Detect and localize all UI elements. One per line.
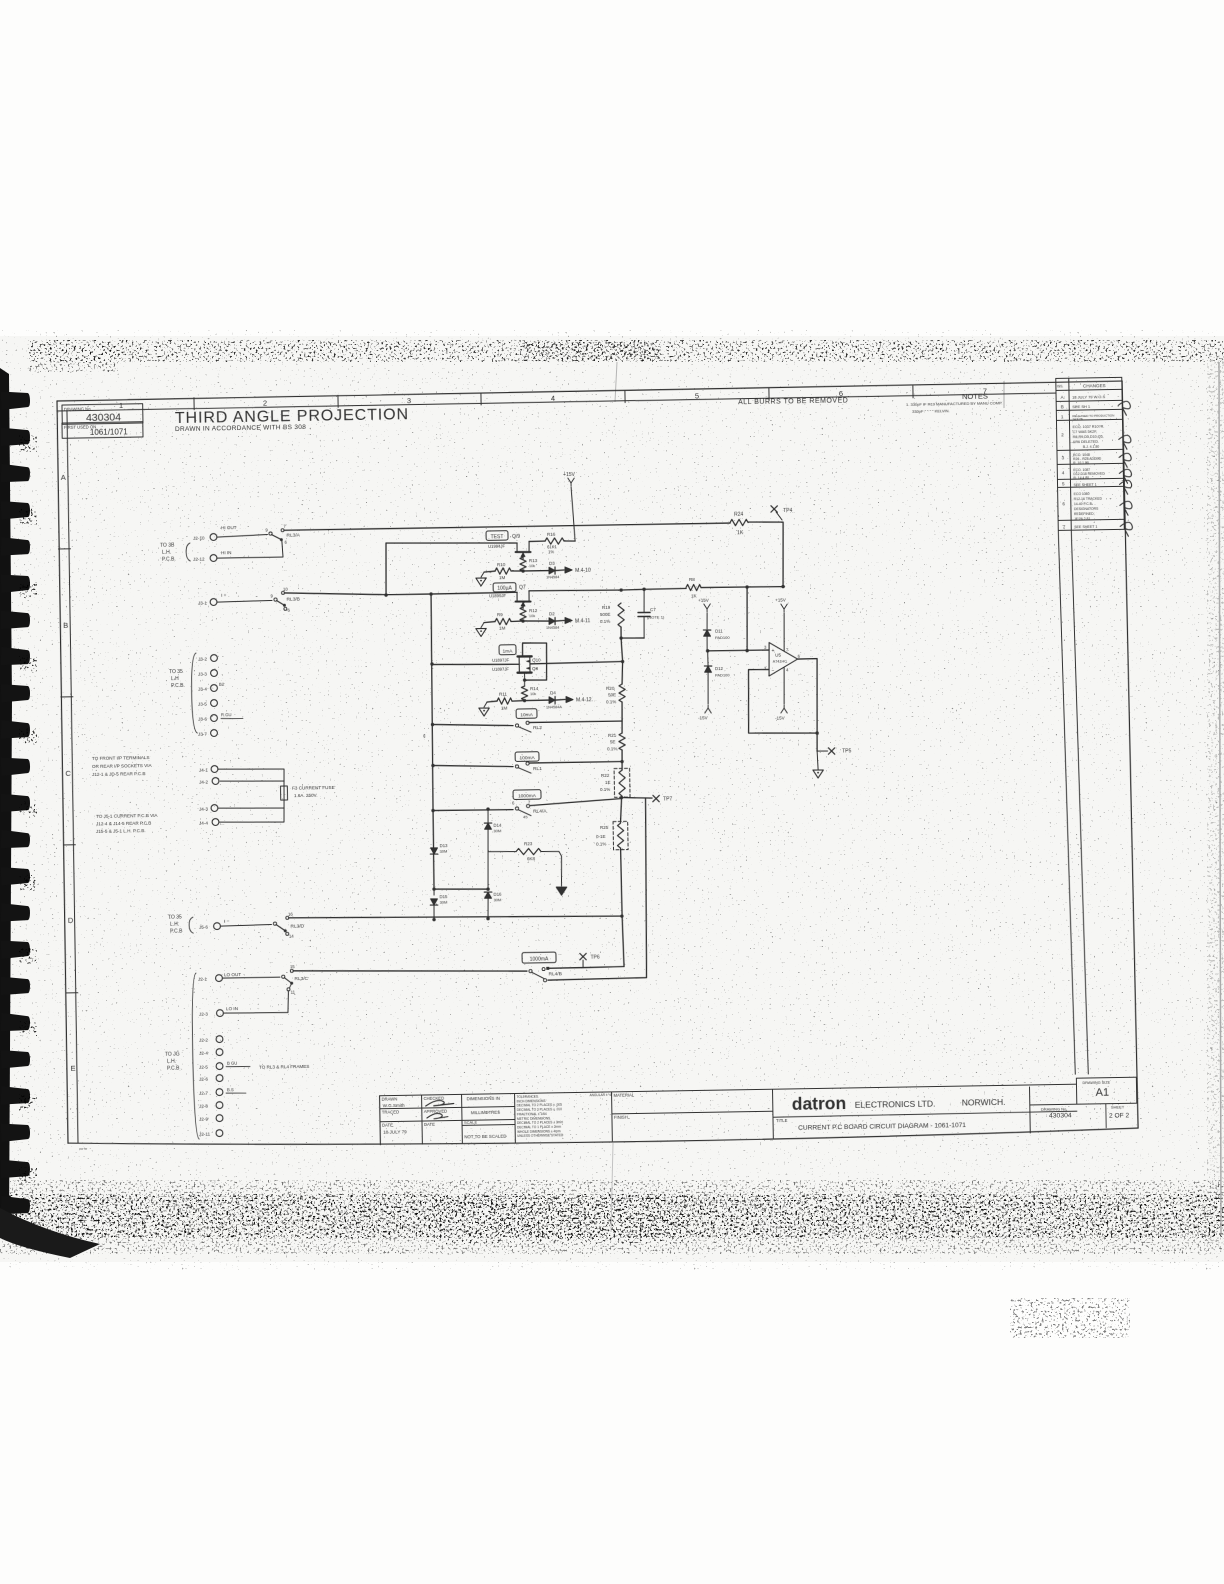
svg-text:R12-16 TRACKED: R12-16 TRACKED [1074, 497, 1103, 501]
svg-text:5E: 5E [610, 739, 616, 744]
svg-text:UNLESS OTHERWISE STATED: UNLESS OTHERWISE STATED [517, 1133, 564, 1138]
svg-text:TP4: TP4 [783, 508, 792, 514]
resistor R23 [488, 850, 516, 853]
svg-text:R22: R22 [601, 773, 610, 778]
svg-text:TEST: TEST [491, 534, 504, 540]
svg-text:14-40 P.C.B.: 14-40 P.C.B. [1074, 502, 1093, 506]
svg-text:ECO 1080: ECO 1080 [1074, 492, 1090, 496]
svg-text:J4-2: J4-2 [199, 779, 208, 784]
svg-text:ISS.: ISS. [1057, 384, 1064, 388]
svg-text:B: B [1061, 404, 1064, 409]
svg-text:R11: R11 [499, 691, 508, 696]
svg-text:TP6: TP6 [590, 954, 599, 960]
scan noise right edge [1207, 355, 1224, 1245]
svg-text:JE 26.2.81: JE 26.2.81 [1074, 517, 1090, 521]
svg-text:U1897JF: U1897JF [492, 667, 510, 672]
svg-text:1061/1071: 1061/1071 [90, 427, 129, 437]
svg-text:R8: R8 [689, 577, 695, 582]
svg-text:D2: D2 [549, 611, 555, 616]
relay RL4/B [529, 970, 532, 973]
svg-text:DATE: DATE [382, 1123, 393, 1128]
resistor R22 with dashed outline [614, 768, 630, 797]
svg-text:NOT TO BE SCALED: NOT TO BE SCALED [464, 1134, 506, 1140]
svg-text:MATERIAL: MATERIAL [614, 1093, 635, 1098]
svg-text:16: 16 [288, 911, 293, 916]
svg-text:18 JULY 79: 18 JULY 79 [383, 1129, 407, 1134]
svg-text:1N4584A: 1N4584A [546, 705, 562, 709]
svg-text:A: A [61, 473, 66, 482]
svg-text:+15V: +15V [775, 597, 786, 602]
resistor R11 [523, 699, 526, 702]
diode D14 [485, 823, 492, 829]
svg-text:1M: 1M [499, 625, 506, 630]
wire feedback loop [748, 668, 818, 734]
svg-text:L.H.: L.H. [162, 550, 171, 556]
svg-text:D: D [68, 916, 74, 925]
off-page arrow M.4-12 [566, 696, 573, 702]
svg-text:10mA: 10mA [520, 712, 533, 718]
svg-text:TITLE: TITLE [776, 1118, 788, 1123]
resistor R9 [521, 619, 524, 622]
wire HI OUT top run [284, 523, 730, 531]
svg-text:U1994JF: U1994JF [488, 544, 506, 549]
top zone ticks [193, 398, 195, 410]
svg-text:J2-5: J2-5 [199, 1064, 208, 1069]
svg-text:R9: R9 [497, 612, 503, 617]
svg-text:B: B [63, 621, 68, 630]
svg-text:+15V: +15V [698, 598, 709, 603]
testpoint TP7 [653, 795, 659, 802]
svg-text:J2-10: J2-10 [193, 535, 205, 540]
svg-text:L.H.: L.H. [167, 1058, 176, 1064]
svg-text:datron: datron [792, 1093, 847, 1114]
resistor R8 [686, 584, 701, 591]
svg-text:R. 14.4.80: R. 14.4.80 [1073, 476, 1089, 480]
svg-text:1E: 1E [605, 780, 611, 785]
svg-text:RL1: RL1 [533, 766, 542, 772]
svg-text:FINISH: FINISH [614, 1115, 628, 1120]
svg-text:−: − [772, 668, 775, 674]
relay RL3/D arm [276, 924, 284, 930]
svg-text:1000mA: 1000mA [530, 956, 549, 962]
svg-text:SCALE: SCALE [464, 1120, 478, 1125]
svg-text:J3-7: J3-7 [198, 731, 207, 736]
svg-text:(NOTE 1): (NOTE 1) [647, 614, 665, 619]
svg-text:14: 14 [289, 934, 294, 939]
svg-text:10k: 10k [529, 564, 535, 568]
svg-text:R16: R16 [547, 532, 556, 537]
svg-text:J2-6: J2-6 [199, 1076, 208, 1081]
svg-text:TO 35: TO 35 [168, 914, 182, 920]
svg-text:CHANGES: CHANGES [1083, 383, 1106, 388]
svg-text:M.4-11: M.4-11 [575, 618, 591, 624]
svg-text:TP7: TP7 [663, 796, 672, 802]
svg-text:2: 2 [263, 399, 267, 408]
wire R24 to TP4 corner [748, 521, 784, 586]
drawing size box [1076, 1077, 1136, 1104]
svg-text:SHEET: SHEET [1111, 1104, 1125, 1109]
diode D2 [523, 620, 549, 623]
svg-text:¢: ¢ [423, 734, 426, 740]
border inner left line [66, 411, 79, 1143]
svg-text:J2-2: J2-2 [199, 1037, 208, 1042]
svg-text:+15V: +15V [563, 472, 576, 478]
svg-text:ANGULAR ± ½°: ANGULAR ± ½° [590, 1093, 614, 1097]
svg-text:RL3/B: RL3/B [286, 596, 299, 602]
power -15V for D12 [707, 705, 709, 708]
svg-text:J12-4 & J14-5 REAR P.C.B: J12-4 & J14-5 REAR P.C.B [96, 821, 151, 827]
svg-text:430304: 430304 [1049, 1112, 1072, 1119]
svg-text:10k: 10k [529, 614, 535, 618]
wire bus drop to op-amp node [746, 587, 748, 651]
svg-text:D13: D13 [439, 843, 448, 848]
svg-text:DATE: DATE [424, 1122, 435, 1127]
svg-text:100µA: 100µA [497, 585, 512, 591]
svg-text:1mA: 1mA [503, 648, 514, 654]
svg-text:D12: D12 [715, 666, 724, 671]
wire R22 bottom junction to TP7 [620, 796, 623, 799]
svg-text:J3-5: J3-5 [198, 701, 207, 706]
svg-text:LO OUT: LO OUT [224, 972, 241, 977]
wire 1000mA bus with relay RL4/A [433, 809, 513, 811]
svg-text:DRAWN: DRAWN [382, 1096, 398, 1101]
svg-text:U1897JF: U1897JF [492, 658, 510, 663]
svg-text:J2-3: J2-3 [199, 1011, 208, 1016]
binding edge black strip [0, 368, 12, 1235]
svg-text:J4-1: J4-1 [199, 767, 208, 772]
svg-text:0.1%: 0.1% [606, 699, 616, 704]
op-amp U5 A741HC [769, 642, 798, 676]
svg-text:pw fw: pw fw [79, 1147, 88, 1151]
svg-text:R19: R19 [602, 605, 611, 610]
svg-text:3: 3 [407, 396, 411, 405]
svg-text:J5-6: J5-6 [199, 924, 208, 929]
label 100mA [515, 752, 539, 762]
svg-text:LO IN: LO IN [226, 1006, 238, 1011]
svg-text:R20: R20 [606, 686, 615, 691]
svg-text:ECO. 1037 R10?R.: ECO. 1037 R10?R. [1073, 425, 1105, 430]
border frame outer [57, 381, 1122, 401]
svg-text:D15: D15 [439, 894, 448, 899]
scan noise band top [28, 340, 1224, 362]
diode D16 [485, 892, 492, 898]
ground below TP5 [813, 770, 824, 778]
border inner top line [57, 393, 1056, 411]
resistor R21 [622, 702, 623, 733]
ground below R23 [556, 887, 567, 895]
wire D11/D12 node to op-amp input [706, 649, 709, 652]
svg-text:1N4584: 1N4584 [546, 575, 559, 579]
diode D15 [433, 889, 435, 895]
svg-text:1.6A. 250V.: 1.6A. 250V. [294, 793, 318, 798]
svg-text:PAD100: PAD100 [715, 635, 730, 640]
svg-text:RL3/D: RL3/D [290, 923, 304, 929]
svg-text:Q/9: Q/9 [512, 534, 520, 540]
relay RL3/B arm [277, 600, 284, 605]
svg-text:J2-12: J2-12 [193, 556, 205, 561]
svg-text:R.GU: R.GU [221, 712, 232, 717]
svg-text:10k: 10k [530, 692, 536, 696]
svg-text:1M: 1M [501, 705, 508, 710]
label 1000mA near RL4/B [522, 952, 556, 963]
svg-text:-15V: -15V [775, 715, 785, 720]
svg-text:330pF " " ": 330pF " " " " KELVIN. [912, 408, 950, 414]
svg-text:J3-4: J3-4 [198, 686, 207, 691]
relay RL3/C arm [284, 978, 291, 983]
svg-text:W.G.Smith: W.G.Smith [383, 1103, 405, 1108]
wire 1mA bus right [530, 662, 623, 664]
svg-text:J2-7: J2-7 [199, 1090, 208, 1095]
drawing-number box [62, 404, 143, 425]
svg-text:R10: R10 [497, 562, 506, 567]
svg-text:Q8: Q8 [532, 666, 539, 671]
svg-text:NOTES: NOTES [962, 392, 988, 401]
title block outline [380, 1084, 1077, 1096]
svg-text:1000mA: 1000mA [518, 793, 537, 799]
svg-text:J15-5 & J5-1 L.H. P.C.B.: J15-5 & J5-1 L.H. P.C.B. [96, 828, 146, 834]
svg-text:D11: D11 [715, 628, 723, 633]
diode D13 [431, 848, 438, 854]
svg-text:P.C.B.: P.C.B. [162, 557, 176, 563]
svg-text:DRAWING No.: DRAWING No. [1041, 1106, 1068, 1111]
wire 100mA bus with relay RL1 [433, 764, 513, 768]
wire 10mA bus with relay RL2 [433, 723, 514, 727]
svg-text:1M: 1M [499, 575, 506, 580]
svg-text:MILLIMETRES: MILLIMETRES [471, 1110, 500, 1115]
label 10mA [516, 709, 537, 719]
ground below R9 [476, 628, 487, 636]
svg-text:0.1%: 0.1% [596, 841, 606, 846]
svg-text:0.1%: 0.1% [600, 787, 610, 792]
svg-text:Q7: Q7 [519, 585, 526, 591]
svg-text:15: 15 [290, 964, 295, 969]
svg-text:D3: D3 [549, 561, 555, 566]
wire left rail [429, 594, 434, 810]
svg-text:J4-4: J4-4 [199, 820, 208, 825]
diode D4 [525, 699, 549, 702]
border frame right edge [1122, 381, 1138, 1128]
resistor R25 with dashed outline [620, 798, 622, 823]
svg-text:B.S: B.S [227, 1087, 234, 1092]
left zone ticks [58, 548, 70, 550]
testpoint TP4 [771, 506, 777, 513]
svg-text:0-1E: 0-1E [596, 834, 606, 839]
paper tone of scanned area [0, 336, 1224, 1262]
svg-text:NORWICH.: NORWICH. [962, 1097, 1006, 1108]
svg-text:1K: 1K [737, 530, 744, 536]
svg-text:10: 10 [283, 586, 288, 591]
svg-text:R. 10.1.80: R. 10.1.80 [1073, 461, 1089, 465]
title block row lines [380, 1107, 515, 1109]
resistor R19 [618, 603, 625, 627]
svg-text:J4-3: J4-3 [199, 806, 208, 811]
svg-text:J2-4: J2-4 [199, 1050, 208, 1055]
svg-text:RL4/B: RL4/B [549, 971, 562, 977]
svg-text:TP5: TP5 [842, 748, 851, 754]
svg-text:L.H.: L.H. [170, 921, 179, 927]
svg-text:DESIGNATORS: DESIGNATORS [1074, 507, 1099, 511]
svg-text:P.C.B: P.C.B [170, 928, 183, 934]
resistor R10 [521, 569, 524, 572]
capacitor C7 [643, 589, 646, 612]
svg-text:A741HC: A741HC [773, 659, 788, 663]
svg-text:TRACED: TRACED [382, 1109, 399, 1114]
resistor R14 [523, 678, 526, 681]
resistor R12 [522, 601, 524, 607]
svg-text:B2: B2 [219, 682, 225, 687]
svg-text:M.4-10: M.4-10 [575, 568, 591, 574]
svg-text:C7: C7 [650, 607, 656, 612]
svg-text:P.C.B.: P.C.B. [171, 683, 185, 689]
wire protection diode rail right [487, 809, 489, 823]
svg-text:M.4-12.: M.4-12. [576, 697, 593, 703]
svg-text:SEE SHEET 1: SEE SHEET 1 [1074, 483, 1097, 487]
power -15V for op-amp [784, 668, 785, 705]
main drawing sheet (tilted) [56, 377, 1143, 1151]
svg-text:TO JG: TO JG [165, 1051, 180, 1057]
resistor R20 [619, 684, 626, 702]
svg-text:J3-2: J3-2 [198, 656, 207, 661]
svg-text:30M: 30M [493, 828, 501, 833]
svg-text:C: C [65, 769, 71, 778]
svg-text:Q10: Q10 [532, 657, 541, 662]
svg-text:D16: D16 [494, 892, 503, 897]
binding ring shadows [19, 436, 37, 1184]
relay RL3/A arm [272, 534, 281, 539]
svg-text:J2-1: J2-1 [198, 976, 207, 981]
testpoint TP6 [580, 953, 586, 960]
ground below R10 [476, 578, 487, 586]
approved signature [427, 1113, 448, 1119]
svg-text:A1: A1 [1096, 1087, 1110, 1099]
svg-text:RL3/A: RL3/A [287, 532, 301, 538]
wire protection diode rail left [433, 811, 435, 890]
svg-text:2 OF 2: 2 OF 2 [1109, 1112, 1130, 1119]
svg-text:F3 CURRENT FUSE: F3 CURRENT FUSE [292, 785, 335, 791]
svg-text:E: E [70, 1064, 75, 1073]
label 100uA [493, 583, 516, 592]
svg-text:J2-8: J2-8 [199, 1103, 208, 1108]
label TEST [486, 531, 508, 541]
svg-text:R24: R24 [734, 512, 743, 518]
resistor R13 [522, 552, 524, 557]
svg-text:6K8: 6K8 [527, 856, 536, 861]
ground below R11 [479, 708, 490, 716]
svg-text:R25: R25 [600, 825, 609, 830]
svg-text:D4: D4 [550, 690, 556, 695]
svg-text:0.1%: 0.1% [600, 619, 610, 624]
svg-text:D14: D14 [493, 823, 502, 828]
svg-text:U5: U5 [775, 652, 781, 657]
svg-text:OR REAR I/P SOCKETS VIA: OR REAR I/P SOCKETS VIA [92, 763, 153, 769]
svg-text:SEE SHEET 1: SEE SHEET 1 [1074, 525, 1097, 529]
svg-text:30M: 30M [493, 897, 501, 902]
svg-text:B.J. 4.1.80: B.J. 4.1.80 [1083, 445, 1099, 449]
svg-text:14.9.79: 14.9.79 [1072, 417, 1082, 421]
wire R19/C7 bottom join [620, 627, 622, 638]
resistor R24 [730, 519, 748, 526]
off-page arrow M.4-10 [565, 567, 572, 573]
svg-text:TO 3B: TO 3B [160, 543, 175, 549]
wire TEST source drop to I+ bus [385, 543, 387, 595]
svg-text:J3-3: J3-3 [198, 671, 207, 676]
svg-text:TO 35: TO 35 [169, 669, 183, 675]
svg-text:4: 4 [551, 394, 555, 403]
fuse F3 [218, 768, 284, 787]
svg-text:P.C.B .: P.C.B . [167, 1065, 182, 1071]
diode D12 [707, 651, 709, 666]
paper crease marks [615, 362, 617, 402]
svg-text:30M: 30M [440, 899, 448, 904]
svg-text:I −: I − [224, 919, 230, 925]
svg-text:1%: 1% [548, 549, 554, 554]
svg-text:R13: R13 [529, 558, 538, 563]
svg-text:TO J5-1 CURRENT P.C.B VIA: TO J5-1 CURRENT P.C.B VIA [96, 813, 159, 819]
svg-text:TO RL3 & RL4 FRAMES: TO RL3 & RL4 FRAMES [259, 1064, 310, 1070]
change approval signatures [1118, 401, 1130, 415]
svg-text:J2-9: J2-9 [199, 1116, 208, 1121]
svg-text:5: 5 [695, 391, 699, 400]
svg-text:I +: I + [221, 593, 227, 599]
diode D11 [704, 630, 711, 636]
svg-text:TO FRONT I/P TERMINALS: TO FRONT I/P TERMINALS [92, 755, 150, 761]
svg-text:R21: R21 [608, 733, 617, 738]
wire I- run [289, 912, 622, 921]
svg-text:B GU: B GU [227, 1060, 237, 1065]
svg-text:R23: R23 [524, 841, 533, 846]
border frame bottom edge [68, 1125, 1138, 1151]
svg-text:SEE SH 1: SEE SH 1 [1072, 404, 1091, 409]
wire LO OUT run [293, 967, 527, 975]
svg-text:REDEFINED,: REDEFINED, [1074, 512, 1095, 516]
svg-text:30M: 30M [439, 848, 447, 853]
svg-text:HI IN: HI IN [221, 550, 232, 555]
svg-text:0.1%: 0.1% [607, 746, 617, 751]
wire I+ bus [285, 589, 518, 596]
bottom-left page shadow [0, 1208, 100, 1258]
svg-text:J12-1 & JD-5 REAR P.C.B: J12-1 & JD-5 REAR P.C.B [92, 771, 146, 777]
svg-text:J2-11: J2-11 [199, 1131, 211, 1136]
svg-text:1: 1 [119, 401, 123, 410]
svg-text:R14: R14 [530, 686, 539, 691]
diode D3 [523, 570, 549, 572]
svg-text:DIMENSIONS IN: DIMENSIONS IN [467, 1096, 501, 1102]
scan noise band bottom [0, 1180, 1224, 1254]
wire TEST FET source [386, 541, 517, 545]
label 1000mA [513, 790, 541, 800]
wire diode rail bridge [434, 888, 488, 890]
svg-text:1N4584: 1N4584 [546, 626, 559, 630]
svg-text:RL2: RL2 [533, 725, 542, 731]
svg-text:1K: 1K [691, 593, 697, 598]
binding comb teeth [1, 390, 31, 1215]
svg-text:-15V: -15V [698, 715, 708, 720]
first-used-on box [62, 422, 143, 439]
svg-text:U1899JF: U1899JF [489, 593, 507, 598]
right margin column lines [1058, 530, 1075, 1074]
svg-text:R8,R9,D5,D10,Q5,: R8,R9,D5,D10,Q5, [1073, 435, 1104, 440]
svg-text:L.H: L.H [171, 676, 179, 682]
svg-text:&R6 DELETED.: &R6 DELETED. [1073, 440, 1099, 444]
wire FET drain to R16 [529, 540, 545, 542]
svg-text:RL4/A: RL4/A [533, 808, 547, 814]
svg-text:HI OUT: HI OUT [221, 525, 237, 530]
label 1mA [499, 645, 516, 655]
wire 1mA bus [432, 663, 519, 666]
svg-text:R12: R12 [529, 608, 538, 613]
svg-text:PAD100: PAD100 [715, 672, 730, 677]
off-page arrow M.4-11 [565, 617, 572, 623]
